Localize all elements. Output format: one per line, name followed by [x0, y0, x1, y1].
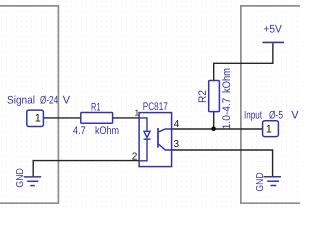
svg-text:4: 4	[174, 119, 180, 130]
resistor R2 body	[209, 81, 220, 112]
wire output net: U1 pin4 to connector Input	[172, 128, 263, 130]
svg-text:V: V	[63, 94, 71, 106]
svg-text:Ø-5: Ø-5	[269, 109, 283, 121]
svg-text:kOhm: kOhm	[95, 125, 119, 137]
svg-text:4.7: 4.7	[73, 125, 86, 137]
+5V power symbol bar	[263, 41, 285, 43]
svg-text:1: 1	[135, 108, 140, 118]
svg-text:2: 2	[132, 152, 138, 163]
svg-text:Ø-24: Ø-24	[40, 94, 58, 106]
wire net Signal: connector J1 to R1 to U1 pin1	[43, 117, 80, 119]
wire U1 pin3 to right ground	[172, 150, 273, 176]
svg-text:1: 1	[35, 112, 41, 124]
svg-text:+5V: +5V	[263, 24, 282, 36]
U1 phototransistor inside	[158, 128, 172, 150]
svg-text:GND: GND	[15, 168, 26, 188]
left block border rectangle	[0, 6, 58, 203]
wire R2 bottom to output net	[213, 112, 215, 129]
wire +5V net: power bar down, left, down to R2 top	[214, 43, 273, 80]
wire GND left net: pin2 of U1 to ground	[33, 161, 139, 177]
svg-text:PC817: PC817	[143, 101, 168, 113]
svg-text:1.0-4.7: 1.0-4.7	[221, 98, 233, 130]
optocoupler U1 PC817 body	[139, 113, 172, 167]
svg-text:R1: R1	[91, 101, 101, 113]
ground symbol left	[24, 177, 42, 186]
right block border rectangle	[241, 6, 305, 203]
U1 LED diode inside	[140, 118, 151, 161]
svg-text:kOhm: kOhm	[221, 68, 233, 93]
svg-text:1: 1	[266, 124, 272, 136]
ground symbol right	[264, 177, 282, 186]
resistor R1 body	[81, 113, 113, 124]
svg-text:Input: Input	[244, 109, 262, 121]
svg-text:3: 3	[174, 139, 180, 150]
connector pin box Input	[263, 121, 279, 137]
connector pin box J1	[27, 110, 44, 126]
svg-text:V: V	[291, 109, 299, 121]
svg-text:GND: GND	[255, 173, 266, 192]
svg-text:Signal: Signal	[7, 94, 35, 106]
junction node dot	[211, 126, 216, 131]
svg-text:R2: R2	[197, 90, 209, 103]
wire R1 right to optocoupler pin 1	[113, 117, 140, 119]
